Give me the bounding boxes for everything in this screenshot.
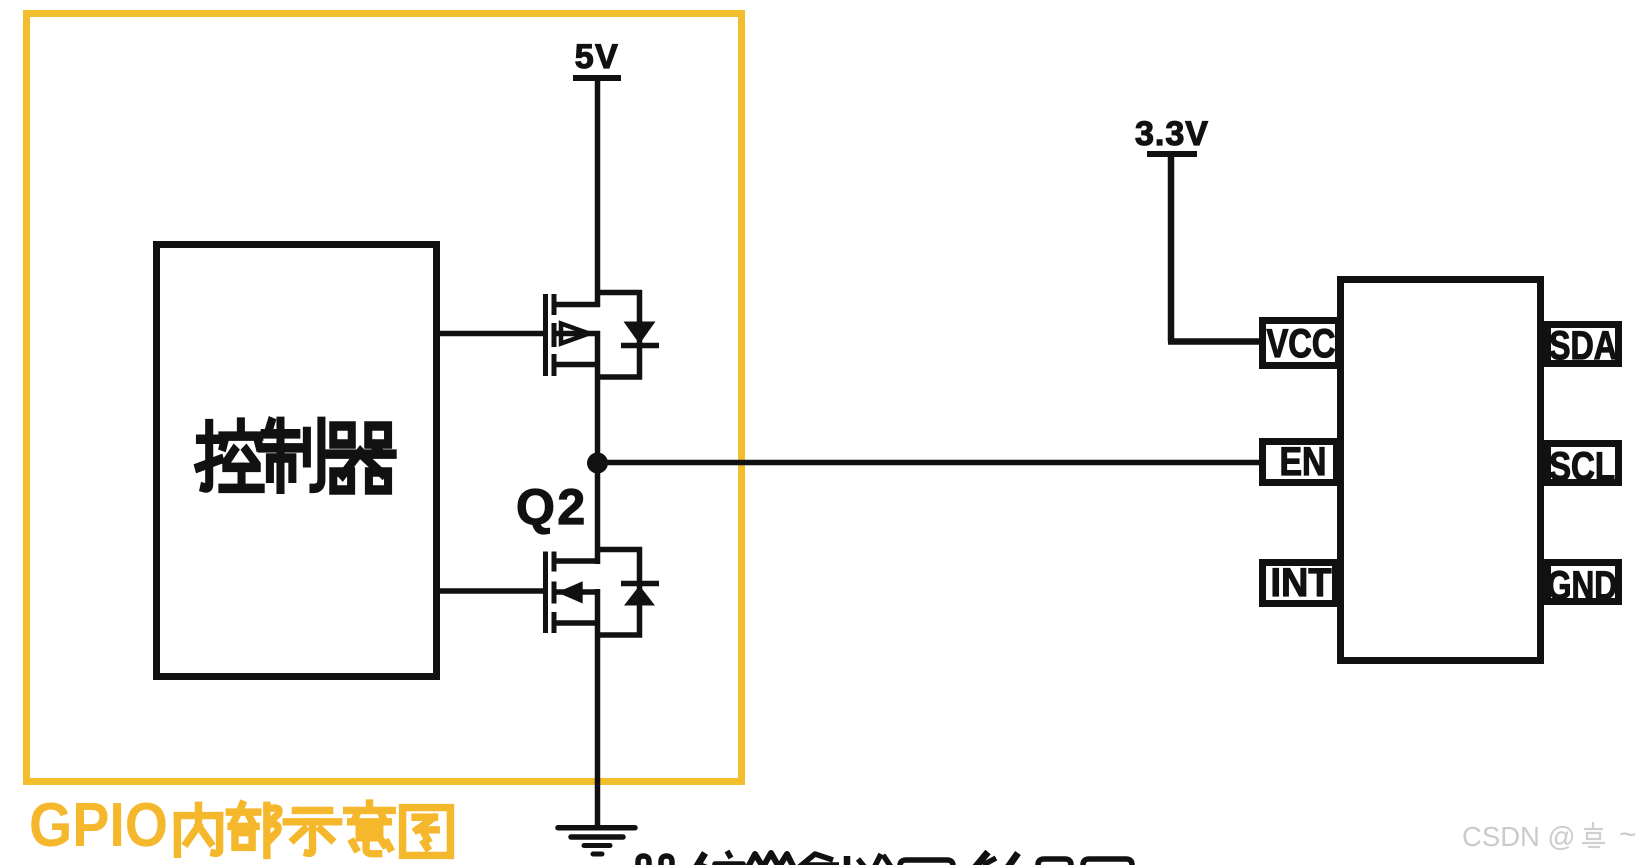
svg-text:~: ~ bbox=[1619, 818, 1637, 851]
svg-text:GND: GND bbox=[1547, 564, 1617, 608]
svg-text:CSDN @: CSDN @ bbox=[1462, 821, 1575, 852]
svg-text:Q2: Q2 bbox=[516, 479, 588, 535]
svg-text:SCL: SCL bbox=[1549, 445, 1615, 489]
svg-text:SDA: SDA bbox=[1549, 324, 1617, 368]
svg-text:EN: EN bbox=[1280, 440, 1327, 484]
svg-text:INT: INT bbox=[1271, 561, 1332, 605]
svg-text:VCC: VCC bbox=[1267, 322, 1336, 366]
svg-text:3.3V: 3.3V bbox=[1135, 115, 1209, 153]
svg-text:5V: 5V bbox=[575, 38, 620, 76]
svg-text:GPIO: GPIO bbox=[29, 791, 168, 860]
